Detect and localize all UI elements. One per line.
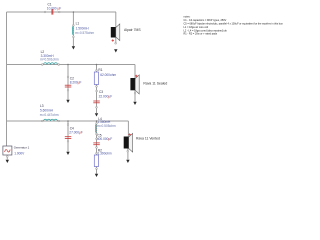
svg-text:m=0.501ohm: m=0.501ohm — [40, 57, 59, 61]
svg-text:1.390ohm: 1.390ohm — [98, 152, 113, 156]
svg-text:1.000V: 1.000V — [14, 151, 25, 155]
svg-text:1.500mH: 1.500mH — [76, 26, 90, 30]
svg-text:22.000µF: 22.000µF — [99, 95, 113, 99]
svg-text:C3: C3 — [99, 90, 103, 94]
svg-text:R1: R1 — [98, 68, 102, 72]
svg-text:Rava 11 Vented: Rava 11 Vented — [136, 137, 160, 141]
svg-text:62.000ohm: 62.000ohm — [100, 73, 116, 77]
svg-text:R1 - R2 = 20w or + rated pads: R1 - R2 = 20w or + rated pads — [184, 33, 218, 36]
svg-text:Generator 1: Generator 1 — [14, 146, 30, 150]
svg-text:m=0.447ohm: m=0.447ohm — [40, 113, 59, 117]
svg-text:400.000µF: 400.000µF — [97, 137, 112, 141]
svg-text:8.200µF: 8.200µF — [70, 80, 82, 84]
svg-text:10.000 µF: 10.000 µF — [47, 7, 61, 11]
svg-text:27.000µF: 27.000µF — [69, 130, 83, 134]
svg-text:Alpair 7MS: Alpair 7MS — [124, 28, 141, 32]
svg-text:m=0.505ohm: m=0.505ohm — [97, 124, 116, 128]
svg-text:5.600mH: 5.600mH — [40, 108, 54, 112]
svg-text:L1: L1 — [76, 22, 80, 26]
svg-text:m=0.575ohm: m=0.575ohm — [75, 31, 94, 35]
svg-text:Rava 11 Sealed: Rava 11 Sealed — [143, 81, 167, 85]
